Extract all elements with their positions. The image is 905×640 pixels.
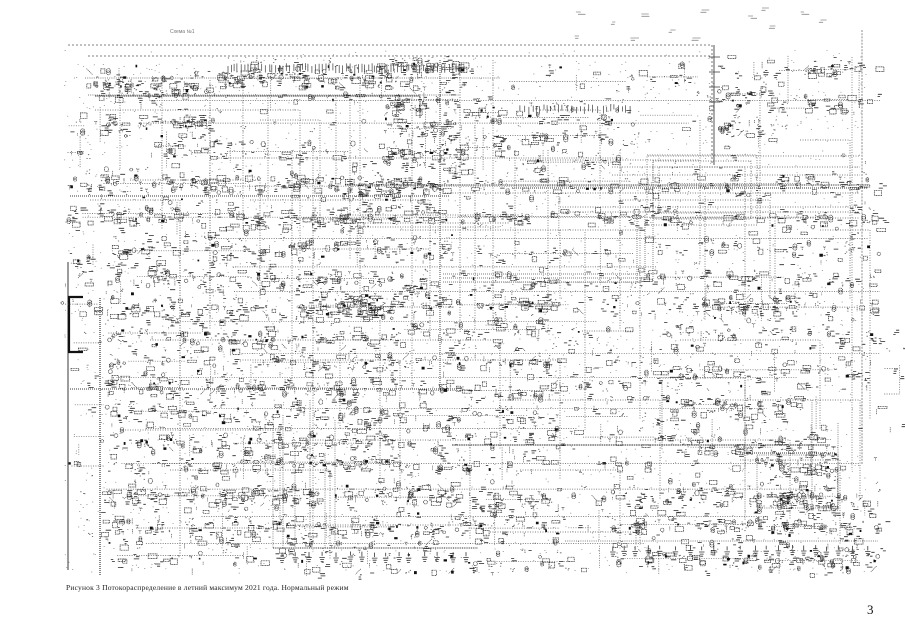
wire drop v3 [774, 218, 776, 320]
bus station tap 3 [709, 86, 720, 88]
dense node B12 [703, 284, 801, 321]
wire vbundle b1 [272, 430, 274, 548]
wire drop a3 [209, 80, 211, 330]
wire top border drop [711, 45, 713, 165]
dense node B11 [489, 288, 560, 324]
label top right notes [575, 8, 827, 40]
network block B3 [251, 168, 461, 236]
bus top connector [95, 96, 420, 118]
substation row D2 [300, 481, 469, 546]
load row D5 [276, 541, 455, 576]
bus station riser [713, 45, 715, 165]
wire top dashed border 2 [88, 55, 712, 57]
bus mid horizontal [70, 388, 455, 390]
network block C9 [667, 324, 885, 395]
sparse top mid [509, 65, 634, 92]
wire vbundle b2 [282, 415, 284, 548]
caption figure 3 [66, 583, 349, 592]
wire right drop [744, 375, 746, 470]
dense node B9 [335, 176, 432, 233]
dense node B10 [298, 292, 385, 323]
network block B2 [107, 235, 257, 325]
wire mid v1 [584, 232, 586, 430]
background scatter upper [80, 67, 884, 202]
wire drop e4 [661, 380, 663, 450]
background scatter mid [76, 206, 880, 390]
network block B1 [67, 168, 259, 238]
wire drop e1 [744, 378, 746, 520]
wire drop e3 [837, 423, 839, 505]
network block C4 [212, 400, 408, 484]
wire drop a4 [242, 80, 244, 230]
substation column A5b [461, 99, 505, 175]
load row D7 [111, 545, 270, 575]
bus station tap 4 [709, 101, 720, 103]
substation core A9 [713, 82, 777, 148]
network block B5 [458, 168, 659, 235]
wire parallel r2 [612, 166, 860, 168]
interconnection wires [90, 90, 870, 560]
margin marks C11 [884, 330, 905, 433]
background scatter lower [81, 391, 887, 558]
wire drop a5 [267, 95, 269, 200]
substation top A9b [718, 55, 775, 80]
load row D6b [765, 543, 886, 578]
svg-text:Схема №1: Схема №1 [170, 29, 195, 35]
substation row D4 [611, 478, 766, 547]
margin marks C12 [69, 332, 104, 466]
wire drop a1 [119, 80, 121, 170]
substation column A5 [384, 57, 469, 170]
bus main horizontal right 2 [512, 187, 868, 189]
substation row A6 [497, 100, 634, 156]
bus left vertical [67, 262, 69, 570]
network block C10b [797, 425, 838, 476]
bus double dotted 2 [443, 277, 640, 279]
dense node E2 [756, 452, 841, 515]
scan speckle [64, 50, 866, 574]
wire vbundle b4 [309, 400, 311, 548]
network block B7 [655, 168, 889, 235]
wire vertical t3 [459, 62, 461, 330]
wire vertical t4 [291, 150, 293, 390]
pin comb top band [228, 63, 630, 114]
bus top row 1 [85, 77, 500, 79]
network block B4 [251, 237, 455, 323]
wire top dashed border [68, 44, 712, 46]
feeder group A4 [152, 109, 223, 168]
bus station tap 2 [709, 71, 720, 73]
bus station tap 1 [709, 56, 720, 58]
bus left vertical 2 [99, 298, 101, 575]
network block C3 [209, 321, 406, 404]
wire drop a10 [514, 150, 516, 260]
wire drop v2 [744, 196, 746, 320]
wire box e5 [757, 455, 838, 508]
wire drop v1 [704, 196, 706, 320]
bus far right vertical [861, 30, 863, 465]
wire vbundle b6 [334, 420, 336, 548]
wire nested rect 2 [653, 161, 751, 219]
feeder group A11 [68, 120, 91, 168]
wire bundle drop 3 [652, 160, 654, 282]
bus main horizontal left [70, 195, 450, 197]
substation row A2 [220, 58, 401, 101]
wire bundle drop 1 [636, 215, 638, 282]
substation row D3 [466, 480, 566, 546]
wire parallel r6 [560, 211, 860, 213]
wire drop a7 [359, 80, 361, 300]
wire nested rect 1 [647, 155, 757, 225]
sparse field A8 [640, 62, 714, 131]
network block B8 [655, 232, 881, 322]
feeder group A3 [94, 107, 153, 142]
substation side A9c [774, 56, 817, 129]
bus load row right [565, 540, 878, 542]
load symbols row left [279, 552, 469, 563]
wire drop a11 [547, 150, 549, 300]
bus right vertical [851, 57, 853, 470]
network block C1 [105, 320, 215, 400]
feeder row A4b [220, 140, 394, 172]
wire drop e2 [811, 400, 813, 510]
bus load row left [273, 547, 478, 549]
wire parallel r4 [440, 192, 860, 194]
bus main horizontal right [345, 184, 868, 186]
wire parallel r1 [648, 155, 860, 157]
load tail E1 [305, 557, 564, 579]
bus double dotted 1 [443, 273, 640, 275]
wire parallel r7 [650, 217, 860, 219]
network block C2 [105, 400, 216, 480]
wire drop a6 [335, 95, 337, 180]
load row D6 [613, 544, 761, 576]
wire bottom step [290, 524, 490, 526]
wire drop a8 [411, 95, 413, 390]
network block C5 [403, 320, 568, 403]
bus bracket left [69, 297, 83, 352]
wire parallel r5 [560, 206, 860, 208]
sparse gap D3b [562, 486, 611, 541]
wire vbundle b5 [324, 455, 326, 548]
bus double dotted 3 [443, 281, 640, 283]
load row D8 [468, 546, 599, 572]
bus dark mid right [452, 444, 830, 446]
wire parallel s3 [355, 226, 500, 228]
bus top row 2 [88, 94, 460, 96]
network block C10 [663, 395, 806, 457]
wire parallel r3 [612, 174, 860, 176]
wire parallel s1 [340, 214, 520, 216]
wire bundle drop 2 [644, 215, 646, 282]
wire vertical t1 [179, 230, 181, 555]
network block C7 [564, 322, 669, 400]
wire drop a12 [619, 150, 621, 330]
network block C6 [406, 402, 566, 480]
feeder group A7 [510, 150, 621, 171]
page number 3 [867, 602, 874, 618]
wire bottom bus [490, 532, 640, 545]
wire vertical t2 [439, 60, 441, 390]
substation row A1 [87, 65, 225, 109]
wire drop a9 [492, 60, 494, 330]
wire mid v2 [379, 320, 381, 480]
wire vertical t5 [312, 150, 314, 545]
margin marks B13 [61, 245, 103, 317]
substation row D4b [759, 481, 891, 550]
wire parallel s2 [340, 222, 510, 224]
wire drop a2 [161, 80, 163, 230]
network block C8 [566, 401, 665, 479]
wire right step [660, 377, 745, 379]
wire vbundle b3 [294, 440, 296, 548]
feeder group A10 [807, 58, 867, 114]
bus dark mid right 2 [740, 452, 836, 454]
wire nested rect 3 [659, 167, 745, 213]
network block B6 [456, 237, 657, 317]
load symbols row right [610, 545, 871, 556]
substation row D1 [102, 478, 304, 548]
